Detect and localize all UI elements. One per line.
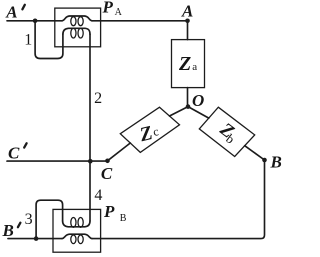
transformer P_B box (53, 209, 101, 252)
impedance Zc (120, 107, 179, 152)
wire B down to PB (92, 160, 265, 239)
svg-text:2: 2 (94, 90, 102, 107)
wire 1 (35, 21, 63, 59)
node A (185, 19, 190, 24)
svg-text:4: 4 (94, 187, 102, 204)
wire A' horizontal to PA (7, 20, 62, 22)
svg-text:C: C (101, 164, 113, 183)
node A' junction (33, 19, 38, 24)
svg-text:Z: Z (178, 53, 191, 75)
transformer P_A box (55, 8, 101, 47)
svg-text:C: C (8, 143, 20, 162)
svg-text:B: B (270, 153, 282, 172)
wire Za to O (187, 88, 189, 105)
svg-text:P: P (102, 0, 114, 17)
wire C to Zc (108, 143, 131, 161)
svg-text:3: 3 (25, 211, 33, 228)
svg-text:P: P (103, 202, 115, 221)
svg-text:A: A (5, 2, 17, 21)
svg-text:A: A (181, 2, 193, 21)
svg-text:B: B (2, 221, 14, 240)
wire Zb to B (245, 146, 265, 160)
node O (186, 104, 191, 109)
wire C' horizontal (7, 160, 108, 162)
label Zb (214, 118, 241, 146)
wire A to Za (187, 21, 189, 40)
wire PA to node A (92, 20, 188, 22)
label Zc (137, 120, 161, 146)
wire B' horizontal (8, 238, 62, 240)
wire O to Zb (188, 107, 209, 119)
P_A primary winding (62, 16, 92, 26)
impedance Za (172, 40, 205, 88)
wire 2 vertical (89, 34, 91, 221)
node C (105, 159, 110, 164)
svg-text:1: 1 (24, 32, 32, 49)
node B (262, 158, 267, 163)
svg-text:a: a (192, 61, 197, 73)
impedance Zb (199, 107, 254, 156)
svg-text:A: A (115, 7, 123, 18)
P_B lower winding (62, 234, 92, 243)
node B' junction (34, 236, 39, 241)
wire Zc to O (170, 107, 189, 116)
svg-text:O: O (192, 91, 204, 110)
node C' junction (88, 159, 93, 164)
P_B upper winding (63, 218, 90, 228)
P_A secondary winding (63, 28, 90, 38)
svg-text:B: B (120, 213, 127, 224)
wire 3 (36, 200, 63, 238)
